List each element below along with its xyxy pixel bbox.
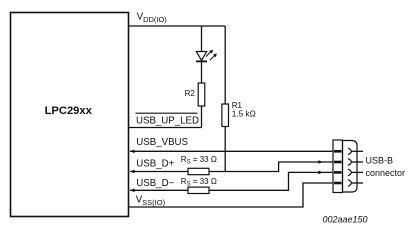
svg-text:connector: connector xyxy=(366,168,406,178)
wire USB_D+ from RS1 to jog xyxy=(209,162,334,172)
connector J1 stub 4 xyxy=(351,182,363,184)
net USB_UP_LED overline xyxy=(136,112,198,114)
svg-text:USB-B: USB-B xyxy=(366,156,394,166)
LED D1 light arrow 2 xyxy=(210,53,217,60)
wire VSS(IO) to connector pin 4 xyxy=(129,183,334,207)
connector J1 contact 4 xyxy=(348,180,351,187)
connector J1 pin 2 bar xyxy=(334,161,342,164)
arrow USB_D- into connector pin 3 xyxy=(318,171,323,175)
IC U1 LPC29xx box xyxy=(11,13,129,217)
resistor RS2 body xyxy=(188,187,209,193)
wire R1 bottom to USB_D+ xyxy=(224,127,226,172)
wire USB_D- from U1 to RS2 xyxy=(130,189,188,191)
LED D1 triangle xyxy=(196,52,206,61)
svg-text:USB_D+: USB_D+ xyxy=(136,159,174,170)
connector J1 shell rounded xyxy=(343,141,358,193)
LED D1 cathode bar xyxy=(196,60,207,62)
connector J1 pin 4 bar xyxy=(334,182,342,185)
arrow USB_VBUS into U1 xyxy=(130,150,135,154)
connector J1 stub 3 xyxy=(351,171,363,173)
arrow USB_D- into U1 xyxy=(130,189,135,193)
connector J1 USB-B body plate xyxy=(333,140,343,193)
LED D1 light arrow 1 xyxy=(206,50,213,57)
wire USB_VBUS to connector pin 1 xyxy=(130,150,334,152)
wire R1 vertical upper (VDD to R1) xyxy=(224,26,226,104)
svg-text:USB_D−: USB_D− xyxy=(136,178,174,189)
connector J1 stub 1 xyxy=(351,150,363,152)
svg-text:USB_VBUS: USB_VBUS xyxy=(136,137,188,148)
svg-text:LPC29xx: LPC29xx xyxy=(45,105,93,117)
connector J1 pin 3 bar xyxy=(334,171,342,174)
resistor R2 body xyxy=(198,83,205,106)
svg-text:1.5 kΩ: 1.5 kΩ xyxy=(232,108,256,118)
wire USB_D+ from U1 to RS1 xyxy=(130,171,188,173)
resistor RS1 body xyxy=(188,168,209,174)
wire LED cathode to R2 xyxy=(201,62,203,83)
svg-text:002aae150: 002aae150 xyxy=(323,215,368,225)
svg-text:R2: R2 xyxy=(185,89,196,98)
connector J1 stub 2 xyxy=(351,161,363,163)
wire R2 bottom to USB_UP_LED xyxy=(201,106,203,128)
wire LED branch (VDD to LED anode) xyxy=(201,26,203,52)
wire USB_D- from RS2 to jog xyxy=(209,172,334,190)
connector J1 pin 1 bar xyxy=(334,150,342,153)
svg-text:USB_UP_LED: USB_UP_LED xyxy=(136,115,199,126)
wire USB_UP_LED xyxy=(129,127,202,129)
arrow USB_D+ into U1 xyxy=(130,170,135,174)
connector J1 contact 2 xyxy=(348,159,351,166)
wire VDD(IO) from U1 to R1 top corner xyxy=(129,25,225,27)
resistor R1 body xyxy=(222,104,229,127)
connector J1 contact 3 xyxy=(348,169,351,176)
arrow USB_D+ into connector pin 2 xyxy=(318,160,323,164)
connector J1 contact 1 xyxy=(348,148,351,155)
